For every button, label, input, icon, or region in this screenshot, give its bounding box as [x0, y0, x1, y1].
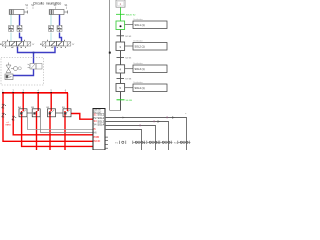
svg-text:S4·FIN: S4·FIN [126, 100, 133, 102]
svg-text:S4·S5: S4·S5 [125, 58, 132, 60]
svg-text:Distribuidor: Distribuidor [133, 81, 143, 84]
svg-text:INICIO·S2: INICIO·S2 [126, 14, 136, 16]
svg-text:SOL4: SOL4 [97, 123, 104, 127]
svg-text:S2·S3: S2·S3 [125, 36, 132, 38]
svg-text:Distribuidor: Distribuidor [133, 62, 143, 65]
svg-text:INCIO: INCIO [94, 140, 101, 143]
svg-text:SOL1: SOL1 [97, 113, 104, 117]
svg-text:Distribuidor: Distribuidor [133, 18, 143, 21]
svg-text:Distribuidor: Distribuidor [133, 40, 143, 43]
svg-text:SOL1 (1): SOL1 (1) [135, 24, 145, 27]
svg-text:SOL3 (1): SOL3 (1) [135, 68, 145, 71]
svg-text:Circuito neumático: Circuito neumático [33, 1, 61, 5]
svg-text:PARO: PARO [6, 124, 12, 127]
svg-text:SOL4 (1): SOL4 (1) [135, 87, 145, 90]
svg-text:SOL2 (1): SOL2 (1) [135, 45, 145, 48]
svg-text:PWR: PWR [94, 136, 100, 139]
svg-text:S7·S8: S7·S8 [125, 79, 132, 81]
